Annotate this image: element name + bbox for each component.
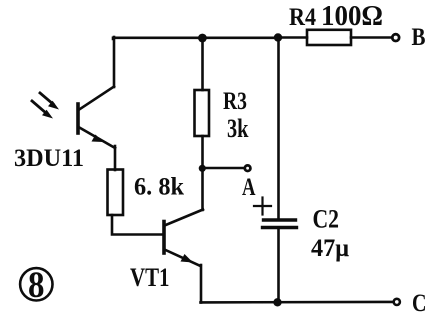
node junction top R3: [198, 34, 207, 43]
svg-text:100Ω: 100Ω: [321, 1, 383, 32]
figure number 8: [20, 265, 52, 306]
svg-text:47μ: 47μ: [311, 235, 349, 262]
svg-text:3DU11: 3DU11: [14, 145, 84, 172]
polarity plus sign: [254, 198, 271, 215]
svg-text:VT1: VT1: [130, 263, 170, 292]
wire to terminal A: [203, 167, 244, 170]
svg-text:3k: 3k: [227, 114, 249, 143]
terminal B: [392, 34, 399, 41]
svg-text:A: A: [242, 174, 256, 201]
wire VT1 emitter down: [200, 265, 203, 303]
light arrow 2: [32, 101, 53, 119]
wire R3 top: [201, 38, 204, 90]
resistor 6.8k: [108, 170, 124, 216]
svg-text:R3: R3: [223, 88, 247, 115]
terminal C: [394, 299, 400, 305]
phototransistor 3DU11: [78, 87, 115, 149]
node junction A: [199, 165, 206, 172]
light arrow 1: [40, 93, 59, 110]
resistor R4: [307, 30, 351, 45]
wire top rail left: [113, 38, 278, 39]
svg-text:C: C: [412, 290, 427, 317]
terminal A: [245, 165, 251, 171]
wire R3 bottom to VT1 collector: [201, 136, 204, 210]
wire bottom rail: [201, 301, 394, 304]
wire emitter to R 6.8k: [114, 146, 117, 170]
wire top rail right: [278, 36, 307, 39]
wire collector drop 3DU11: [113, 37, 116, 87]
node junction top C2: [274, 33, 282, 41]
capacitor C2: [263, 220, 297, 228]
svg-text:6. 8k: 6. 8k: [134, 174, 184, 201]
svg-text:8: 8: [28, 265, 45, 306]
wire C2 top: [277, 37, 280, 219]
transistor VT1: [164, 210, 203, 267]
wire R 6.8k to VT1 base: [112, 215, 163, 235]
svg-text:C2: C2: [313, 205, 340, 234]
wire C2 bottom: [277, 228, 280, 303]
svg-text:B: B: [412, 24, 426, 51]
resistor R3: [195, 90, 210, 136]
node junction bottom C2: [273, 298, 281, 306]
wire R4 to terminal B: [351, 36, 392, 39]
svg-text:R4: R4: [289, 4, 316, 31]
